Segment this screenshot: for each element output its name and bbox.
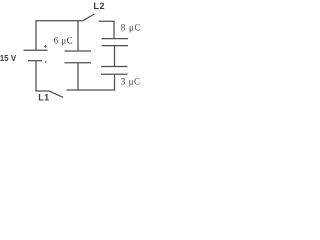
capacitor C2 bottom plate [102,45,129,47]
wire top-right horizontal [99,20,115,22]
switch L2 blade [83,14,95,21]
wire right vertical upper [113,21,115,39]
switch L1 blade [49,91,63,97]
svg-text:6 μC: 6 μC [54,36,73,46]
wire right vertical middle [114,46,116,67]
svg-text:3 μC: 3 μC [121,76,141,86]
svg-text:8 μC: 8 μC [121,23,141,33]
wire right vertical lower [114,74,116,90]
capacitor C2 top plate [102,38,129,40]
battery minus mark [45,61,47,63]
wire left vertical upper [35,20,37,50]
capacitor C1 bottom plate [65,62,92,64]
wire bottom-right horizontal [67,89,116,91]
wire middle vertical lower [77,63,79,91]
wire left vertical lower [35,61,37,92]
battery V1 short plate [28,60,42,62]
svg-text:L1: L1 [38,92,50,102]
battery plus mark [44,45,47,48]
wire middle vertical upper [77,21,79,51]
capacitor C3 bottom plate [101,73,128,75]
svg-text:L2: L2 [93,1,105,11]
wire top-left horizontal [35,20,82,22]
capacitor C3 top plate [101,66,128,68]
wire bottom-left horizontal [35,90,49,92]
capacitor C1 top plate [65,50,92,52]
battery V1 long plate [24,49,48,51]
svg-text:15 V: 15 V [0,54,17,63]
